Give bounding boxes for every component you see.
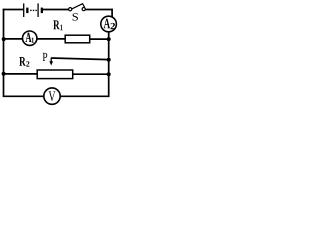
battery B1 [24, 3, 43, 17]
label S [73, 13, 78, 20]
wire A1 row left [4, 38, 23, 40]
wire bottom left [3, 95, 44, 97]
wire R2 row left [4, 73, 38, 75]
ammeter A1 [23, 31, 37, 45]
rheostat R2 [37, 70, 72, 79]
wire A1 to R1 [37, 38, 66, 40]
wire right rail below A2 [108, 30, 110, 96]
wire top-right vertical into A2 [111, 9, 113, 18]
wire bottom right [60, 95, 110, 97]
ammeter A2 [101, 16, 117, 32]
junction node right R1 row [107, 37, 111, 41]
junction node left R2 row [2, 72, 6, 76]
wire battery to switch [43, 9, 69, 11]
wire left rail [3, 9, 5, 97]
switch S [69, 4, 86, 11]
junction node right R2 row [107, 72, 111, 76]
voltmeter V [44, 88, 60, 104]
wire top-left from left rail to battery [3, 9, 24, 11]
resistor R1 [65, 35, 90, 43]
rheostat slider P arrow [49, 58, 53, 66]
junction node left A1 row [2, 37, 6, 41]
wire R2 to right rail [73, 73, 109, 75]
junction node right slider row [107, 58, 111, 62]
label R1 [53, 20, 62, 30]
label R2 [19, 57, 29, 67]
wire rheostat slider to right rail [51, 58, 108, 60]
wire R1 to right rail [90, 38, 109, 40]
wire switch to top-right corner [85, 9, 112, 11]
label P [43, 53, 48, 61]
